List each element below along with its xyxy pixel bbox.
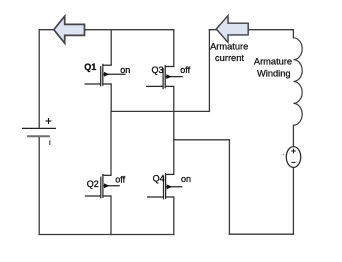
label armature current [210, 41, 248, 63]
wire Q4 source to bottom rail [173, 197, 175, 235]
svg-text:+: + [282, 153, 286, 159]
wire Q2 drain from node A [110, 111, 112, 175]
wire source to bottom lead [292, 167, 294, 234]
wire node A riser to armature top [208, 30, 210, 112]
svg-text:Q1: Q1 [84, 62, 96, 72]
svg-text:Winding: Winding [257, 69, 291, 79]
svg-text:Q2: Q2 [87, 179, 99, 189]
transistor Q3 [146, 65, 183, 89]
wire Q3 drain to top rail [173, 30, 175, 67]
svg-text:Armature: Armature [254, 57, 292, 67]
wire armature top horizontal [209, 29, 293, 31]
transistor Q4 [147, 173, 182, 199]
arrow left current direction [54, 16, 85, 43]
wire Q1 source to node A [110, 84, 112, 111]
svg-text:off: off [180, 65, 190, 75]
wire node B vertical (Q3 source to Q4 drain) [173, 86, 175, 174]
svg-text:on: on [120, 65, 130, 75]
wire left rail upper (battery + to top rail) [38, 30, 40, 129]
battery V1 [22, 118, 56, 145]
svg-text:current: current [215, 53, 244, 63]
wire top rail [39, 29, 174, 31]
wire Q2 source to bottom rail [110, 196, 112, 235]
wire armature winding lead top [292, 30, 294, 38]
wire left rail lower (battery - to bottom rail) [38, 136, 40, 234]
wire bottom right horizontal [229, 233, 293, 235]
wire node A horizontal [111, 110, 209, 112]
wire node B drop vertical [228, 140, 230, 234]
transistor Q2 [85, 174, 120, 198]
svg-text:off: off [115, 174, 125, 184]
label armature winding [254, 57, 292, 79]
wire winding to source lead [292, 125, 294, 146]
wire node B tap horizontal [174, 139, 230, 141]
svg-text:Q4: Q4 [153, 174, 165, 184]
svg-text:Armature: Armature [210, 41, 248, 51]
voltage source V2 back-EMF [286, 147, 300, 168]
arrow right armature current [216, 16, 248, 43]
svg-text:on: on [181, 174, 191, 184]
wire Q1 drain to top rail [110, 30, 112, 65]
svg-text:Q3: Q3 [152, 65, 164, 75]
transistor Q1 [85, 64, 126, 87]
inductor L1 armature winding [293, 38, 302, 125]
wire bottom rail [39, 234, 174, 236]
